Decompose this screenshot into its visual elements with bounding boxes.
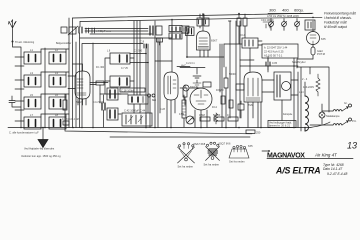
- capacitor on V1 right: [96, 81, 104, 85]
- socket diagram S1: [178, 142, 206, 169]
- wire pickup feed: [310, 111, 333, 125]
- coil bank2 box d: [107, 108, 118, 120]
- wire osc-IF links: [224, 41, 262, 72]
- svg-text:C.12 0.1 R.4 1M: C.12 0.1 R.4 1M: [62, 119, 79, 121]
- svg-text:L7: L7: [30, 113, 33, 117]
- svg-text:Frekvensomfang målt: Frekvensomfang målt: [324, 12, 357, 16]
- coil L6: [49, 93, 66, 109]
- capacitor padder boxes: [197, 18, 209, 26]
- junction dot: [186, 56, 188, 58]
- wire v222 etc: [222, 21, 240, 128]
- tube V1 6SA7: [75, 71, 90, 104]
- terminal circles mid: [148, 94, 151, 97]
- resistor R6: [213, 113, 224, 121]
- rectangle IF label box: [262, 44, 298, 58]
- wire V4 pins: [195, 110, 207, 128]
- note text block top right: [324, 12, 357, 30]
- svg-text:MAGNAVOX: MAGNAVOX: [267, 152, 305, 159]
- wire left stubs: [15, 57, 24, 121]
- svg-text:P.U.: P.U.: [352, 119, 357, 123]
- resistor R2: [224, 67, 228, 127]
- wire column between banks: [44, 48, 46, 128]
- resistor below bus: [246, 130, 261, 135]
- wire avc line: [180, 67, 205, 69]
- socket diagram S3: [229, 144, 253, 164]
- svg-text:Air King 4T: Air King 4T: [314, 153, 337, 158]
- svg-text:L.14: L.14: [299, 92, 304, 94]
- svg-text:Til ant. tilslutning: Til ant. tilslutning: [15, 40, 35, 44]
- coil bank2 box b: [110, 76, 130, 87]
- wire top line B: [80, 17, 322, 21]
- coil L5: [24, 93, 41, 109]
- trimmer T2: [282, 19, 287, 31]
- tube V3 6SK7 top: [197, 31, 218, 50]
- wire vertical bus v70: [68, 18, 70, 128]
- svg-text:R.8 2M: R.8 2M: [216, 90, 223, 92]
- svg-text:til 40mW output: til 40mW output: [324, 25, 348, 29]
- svg-text:6E5: 6E5: [152, 100, 157, 102]
- wire v261: [260, 102, 262, 128]
- coil bank2 box a: [110, 53, 130, 64]
- tube V2 6K8: [164, 72, 178, 100]
- svg-text:L4: L4: [55, 71, 58, 75]
- svg-text:C.18 100pF: C.18 100pF: [121, 88, 135, 92]
- svg-text:Vedrører kun app. 1500 og 450: Vedrører kun app. 1500 og 450 og: [21, 154, 61, 158]
- wire vertical bus v73: [72, 18, 74, 128]
- wire netafbryder: [297, 59, 313, 68]
- svg-text:C34 100pF: C34 100pF: [261, 18, 274, 22]
- resistor column right of T2: [183, 85, 187, 105]
- svg-text:fjernes br. 20 & 21: fjernes br. 20 & 21: [269, 124, 291, 128]
- value labels scatter: [56, 35, 304, 121]
- wire V5 pins: [248, 102, 258, 128]
- wire bank2 connects: [105, 58, 134, 114]
- wire diagonal to terminals: [310, 122, 330, 128]
- wire V3 pins: [200, 50, 208, 57]
- svg-text:Bølgeomskifter: Bølgeomskifter: [56, 42, 72, 45]
- svg-text:50000: 50000: [229, 74, 236, 76]
- wire v294 v298: [294, 58, 298, 128]
- svg-text:Ved Højttaler-fejl tilsendes: Ved Højttaler-fejl tilsendes: [24, 147, 55, 151]
- coil L4: [49, 71, 66, 87]
- tube V6 rectifier: [307, 32, 327, 45]
- capacitor C2 pair: [150, 26, 162, 35]
- svg-text:A 50 c/s 25W Nr 4268 220V: A 50 c/s 25W Nr 4268 220V: [267, 14, 299, 18]
- wire stub left of title: [262, 150, 269, 152]
- resistor R1 vertical: [63, 94, 67, 127]
- wire top line A: [73, 13, 314, 18]
- tube V4 6SQ7: [190, 85, 212, 110]
- choke field coil: [301, 82, 309, 131]
- capacitor under band: [157, 38, 163, 45]
- bus third line: [110, 136, 250, 138]
- coil L8: [49, 113, 66, 129]
- resistor R13 zigzag: [215, 113, 218, 124]
- socket diagram S2: [204, 142, 232, 167]
- wire choke bottom: [304, 128, 306, 132]
- power transformer frame: [297, 67, 329, 112]
- wire V1 left stubs: [68, 76, 75, 89]
- svg-text:C.7 25: C.7 25: [121, 68, 128, 70]
- wire mid horizontals: [82, 44, 148, 128]
- svg-text:C.28: C.28: [160, 109, 166, 111]
- wire V1 right pair: [90, 83, 108, 85]
- wire boxA-boxB links: [134, 104, 140, 113]
- capacitor box near V3: [182, 26, 189, 33]
- svg-text:Type Nr. 4268: Type Nr. 4268: [323, 163, 344, 167]
- svg-text:L3: L3: [30, 71, 33, 75]
- wire transformer down: [281, 100, 283, 121]
- svg-text:6X5: 6X5: [321, 37, 326, 41]
- main bus: [8, 127, 310, 129]
- output transformer: [274, 72, 291, 100]
- wire V3 top: [202, 14, 204, 31]
- wire V1 top: [73, 64, 83, 71]
- svg-text:22 415 Kc/s 0.25: 22 415 Kc/s 0.25: [264, 50, 284, 54]
- svg-text:L8: L8: [55, 113, 58, 117]
- wire top right line: [268, 13, 312, 15]
- box right of trimmers: [305, 20, 315, 30]
- capacitor C1 trimmer cluster: [61, 26, 95, 35]
- wire V2 pins: [167, 100, 175, 128]
- svg-text:C.11 50pF: C.11 50pF: [93, 102, 104, 104]
- junction dots bus: [20, 19, 306, 129]
- svg-text:A2 100 50 7 0.1: A2 100 50 7 0.1: [264, 53, 283, 57]
- box OSC: [242, 38, 258, 48]
- svg-text:L2: L2: [55, 48, 58, 52]
- svg-text:400.: 400.: [282, 8, 290, 13]
- svg-text:600µ.: 600µ.: [294, 8, 304, 13]
- resistor R4 under rectifier: [311, 45, 325, 60]
- svg-text:Fuldudstyr målt: Fuldudstyr målt: [324, 21, 348, 25]
- coil osc second box: [186, 27, 195, 36]
- svg-text:0.5M: 0.5M: [179, 114, 184, 116]
- svg-text:Set fra neden: Set fra neden: [204, 163, 220, 167]
- wire grid-return y57: [182, 33, 224, 57]
- wire transformer links: [262, 80, 298, 95]
- wire v93: [92, 43, 94, 128]
- wire antenna feed: [13, 44, 22, 128]
- coil L3: [24, 71, 41, 87]
- svg-text:L6: L6: [55, 93, 58, 97]
- note box bottom: [268, 121, 296, 128]
- antenna: [9, 20, 16, 44]
- wire V2 top: [171, 20, 173, 72]
- coil bank2 box c: [107, 88, 118, 100]
- coil L1: [24, 48, 41, 64]
- svg-text:6SQ7 6V6: 6SQ7 6V6: [219, 142, 232, 146]
- resistor R5: [199, 113, 210, 121]
- coil L7: [24, 113, 41, 129]
- wire vertical bus v76: [76, 22, 80, 128]
- svg-text:0.5M: 0.5M: [199, 113, 205, 117]
- svg-text:L.9: L.9: [107, 51, 111, 53]
- wire v100: [99, 85, 101, 103]
- svg-text:Set fra neden: Set fra neden: [178, 165, 194, 169]
- svg-text:0.1: 0.1: [227, 113, 231, 117]
- wire v212 v216: [200, 14, 224, 92]
- title small text: [323, 163, 348, 176]
- svg-text:6V6: 6V6: [248, 103, 253, 107]
- svg-text:C. alle kondensatorer i µF: C. alle kondensatorer i µF: [9, 130, 39, 134]
- handwritten calibration numbers: [269, 8, 304, 13]
- tube V5 6K6 output: [244, 72, 262, 107]
- resistor R3 hatched: [182, 95, 186, 127]
- box AVC left of V5: [236, 84, 244, 90]
- coil box A: [128, 95, 148, 104]
- capacitor cluster C34: [261, 18, 274, 28]
- resistor boxes top: [228, 14, 247, 44]
- svg-text:fr. 22 0047 25V 1.44: fr. 22 0047 25V 1.44: [264, 46, 288, 50]
- pickup terminal 2: [333, 118, 357, 125]
- svg-text:t.4 50pF o.sv: t.4 50pF o.sv: [96, 29, 112, 33]
- wire bank hooks right: [41, 49, 69, 117]
- svg-text:Dato 14-1-47: Dato 14-1-47: [323, 167, 342, 171]
- wire V1 pins down: [78, 99, 86, 105]
- wire osc band lines: [80, 29, 172, 39]
- svg-text:6SQ7: 6SQ7: [190, 85, 197, 89]
- capacitor C30: [266, 56, 270, 70]
- resistor R7: [227, 113, 238, 121]
- svg-text:13: 13: [347, 141, 357, 151]
- svg-text:Skalalampe: Skalalampe: [326, 114, 340, 118]
- label strip mid: [120, 88, 145, 92]
- svg-text:R.14: R.14: [240, 35, 246, 37]
- title underline: [267, 158, 353, 160]
- pickup terminal 1: [333, 101, 352, 111]
- svg-text:R.12: R.12: [212, 107, 218, 109]
- capacitor small right: [238, 101, 244, 118]
- coil L2: [49, 48, 66, 64]
- svg-text:6X5: 6X5: [248, 144, 253, 148]
- svg-text:Set fra neden: Set fra neden: [229, 160, 245, 164]
- svg-text:Feltspole: Feltspole: [283, 113, 293, 116]
- svg-text:2 - 4: 2 - 4: [302, 77, 308, 81]
- wire IF bottom links: [240, 58, 298, 72]
- trimmer T1: [269, 19, 274, 31]
- lamp: [319, 104, 340, 124]
- wire T2 top side: [155, 61, 190, 67]
- svg-text:Gr.: Gr.: [344, 101, 348, 105]
- ground: [38, 128, 48, 148]
- svg-text:50000: 50000: [213, 113, 221, 117]
- svg-text:L5: L5: [30, 93, 33, 97]
- svg-text:C.9 500: C.9 500: [134, 51, 143, 53]
- resistor R10: [221, 96, 225, 104]
- svg-text:6SK7: 6SK7: [211, 39, 218, 43]
- svg-text:POT.M: POT.M: [317, 52, 325, 56]
- svg-text:9-2-47 E-4-48: 9-2-47 E-4-48: [327, 172, 348, 176]
- svg-text:250: 250: [256, 131, 261, 135]
- svg-text:0.05: 0.05: [272, 61, 278, 65]
- potentiometer: [186, 116, 194, 124]
- svg-text:C.8: C.8: [140, 40, 145, 44]
- bus second line: [65, 128, 252, 134]
- resistor small lower-left: [63, 121, 69, 125]
- diode detector cluster: [180, 82, 211, 91]
- svg-text:C.21 0.1: C.21 0.1: [186, 63, 195, 65]
- svg-text:C.42 1000pF C.44: C.42 1000pF C.44: [124, 109, 146, 113]
- svg-text:L1: L1: [30, 48, 33, 52]
- resistor R11: [229, 100, 233, 108]
- capacitor C4 with ground: [193, 68, 201, 87]
- svg-text:i forhold til chassis.: i forhold til chassis.: [324, 16, 352, 20]
- capacitor C3: [102, 95, 105, 127]
- capacitor C8: [140, 40, 147, 49]
- svg-text:A/S ELTRA: A/S ELTRA: [275, 166, 320, 176]
- wire rect top: [312, 21, 314, 32]
- wire gang verticals: [134, 21, 160, 128]
- switch box B: [122, 113, 152, 126]
- capacitor C5 left edge: [9, 96, 21, 107]
- svg-text:R.1 300: R.1 300: [96, 67, 105, 69]
- trimmer T3: [295, 19, 300, 31]
- coil osc T-osc: [169, 26, 182, 40]
- svg-text:300.: 300.: [269, 8, 277, 13]
- svg-text:6SA7 6K8: 6SA7 6K8: [194, 142, 206, 146]
